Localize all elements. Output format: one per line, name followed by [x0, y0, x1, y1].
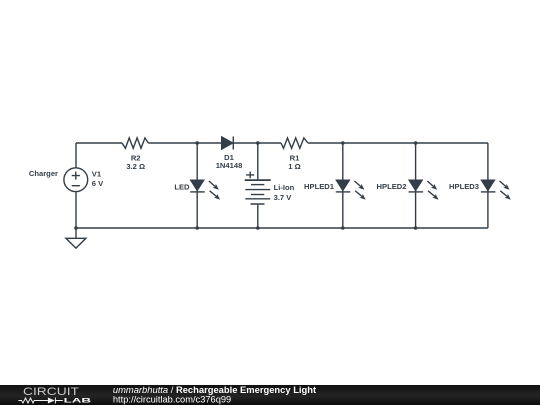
- voltage source V1: [64, 168, 88, 192]
- node bottom HPLED2: [414, 226, 418, 230]
- wire top rail R1 to right end: [308, 142, 488, 144]
- svg-text:Li-Ion: Li-Ion: [274, 183, 295, 192]
- svg-text:HPLED1: HPLED1: [304, 182, 335, 191]
- LED HPLED2: [409, 180, 424, 192]
- svg-text:http://circuitlab.com/c376q99: http://circuitlab.com/c376q99: [113, 394, 231, 404]
- svg-text:V1: V1: [92, 169, 102, 178]
- wire LED branch: [196, 143, 198, 228]
- resistor R2: [122, 138, 148, 148]
- svg-text:1 Ω: 1 Ω: [288, 162, 300, 171]
- node top LED: [195, 141, 199, 145]
- wire top rail R2 to D1: [148, 142, 221, 144]
- resistor R1: [281, 138, 308, 148]
- node top HPLED2: [414, 141, 418, 145]
- svg-text:3.2 Ω: 3.2 Ω: [126, 162, 145, 171]
- LED arrows: [209, 181, 220, 200]
- ground: [66, 238, 86, 248]
- svg-text:LED: LED: [174, 183, 190, 192]
- LED D2: [190, 180, 205, 192]
- HPLED3 arrows: [500, 181, 511, 200]
- logo diode: [48, 398, 63, 404]
- svg-text:3.7 V: 3.7 V: [274, 193, 293, 202]
- node top battery: [256, 141, 260, 145]
- wire bottom rail: [76, 227, 488, 229]
- svg-text:HPLED3: HPLED3: [449, 182, 479, 191]
- logo squiggle resistor: [18, 398, 48, 403]
- LED HPLED3: [481, 180, 496, 192]
- HPLED1 arrows: [355, 181, 366, 200]
- node bottom ground: [74, 226, 78, 230]
- footer bar: [0, 385, 540, 405]
- wire top rail D1 to R1: [233, 142, 281, 144]
- wire battery branch upper: [257, 143, 259, 180]
- svg-text:6 V: 6 V: [92, 179, 104, 188]
- svg-text:HPLED2: HPLED2: [377, 182, 407, 191]
- node bottom battery: [256, 226, 260, 230]
- node bottom LED: [195, 226, 199, 230]
- LED HPLED1: [336, 180, 351, 192]
- wire HPLED2 branch: [415, 143, 417, 228]
- battery BAT1 Li-Ion: [245, 172, 271, 204]
- svg-text:LAB: LAB: [64, 397, 92, 404]
- diode D1: [222, 137, 234, 150]
- wire battery branch lower: [257, 204, 259, 228]
- wire HPLED1 branch: [342, 143, 344, 228]
- wire left branch lower: [75, 192, 77, 228]
- wire left branch upper: [75, 143, 77, 168]
- wire top rail left segment: [76, 142, 122, 144]
- HPLED2 arrows: [427, 181, 438, 200]
- svg-text:Charger: Charger: [29, 169, 58, 178]
- node bottom HPLED1: [341, 226, 345, 230]
- svg-text:1N4148: 1N4148: [216, 161, 243, 170]
- wire HPLED3 branch: [487, 143, 489, 228]
- node top HPLED1: [341, 141, 345, 145]
- wire ground lead: [75, 228, 77, 238]
